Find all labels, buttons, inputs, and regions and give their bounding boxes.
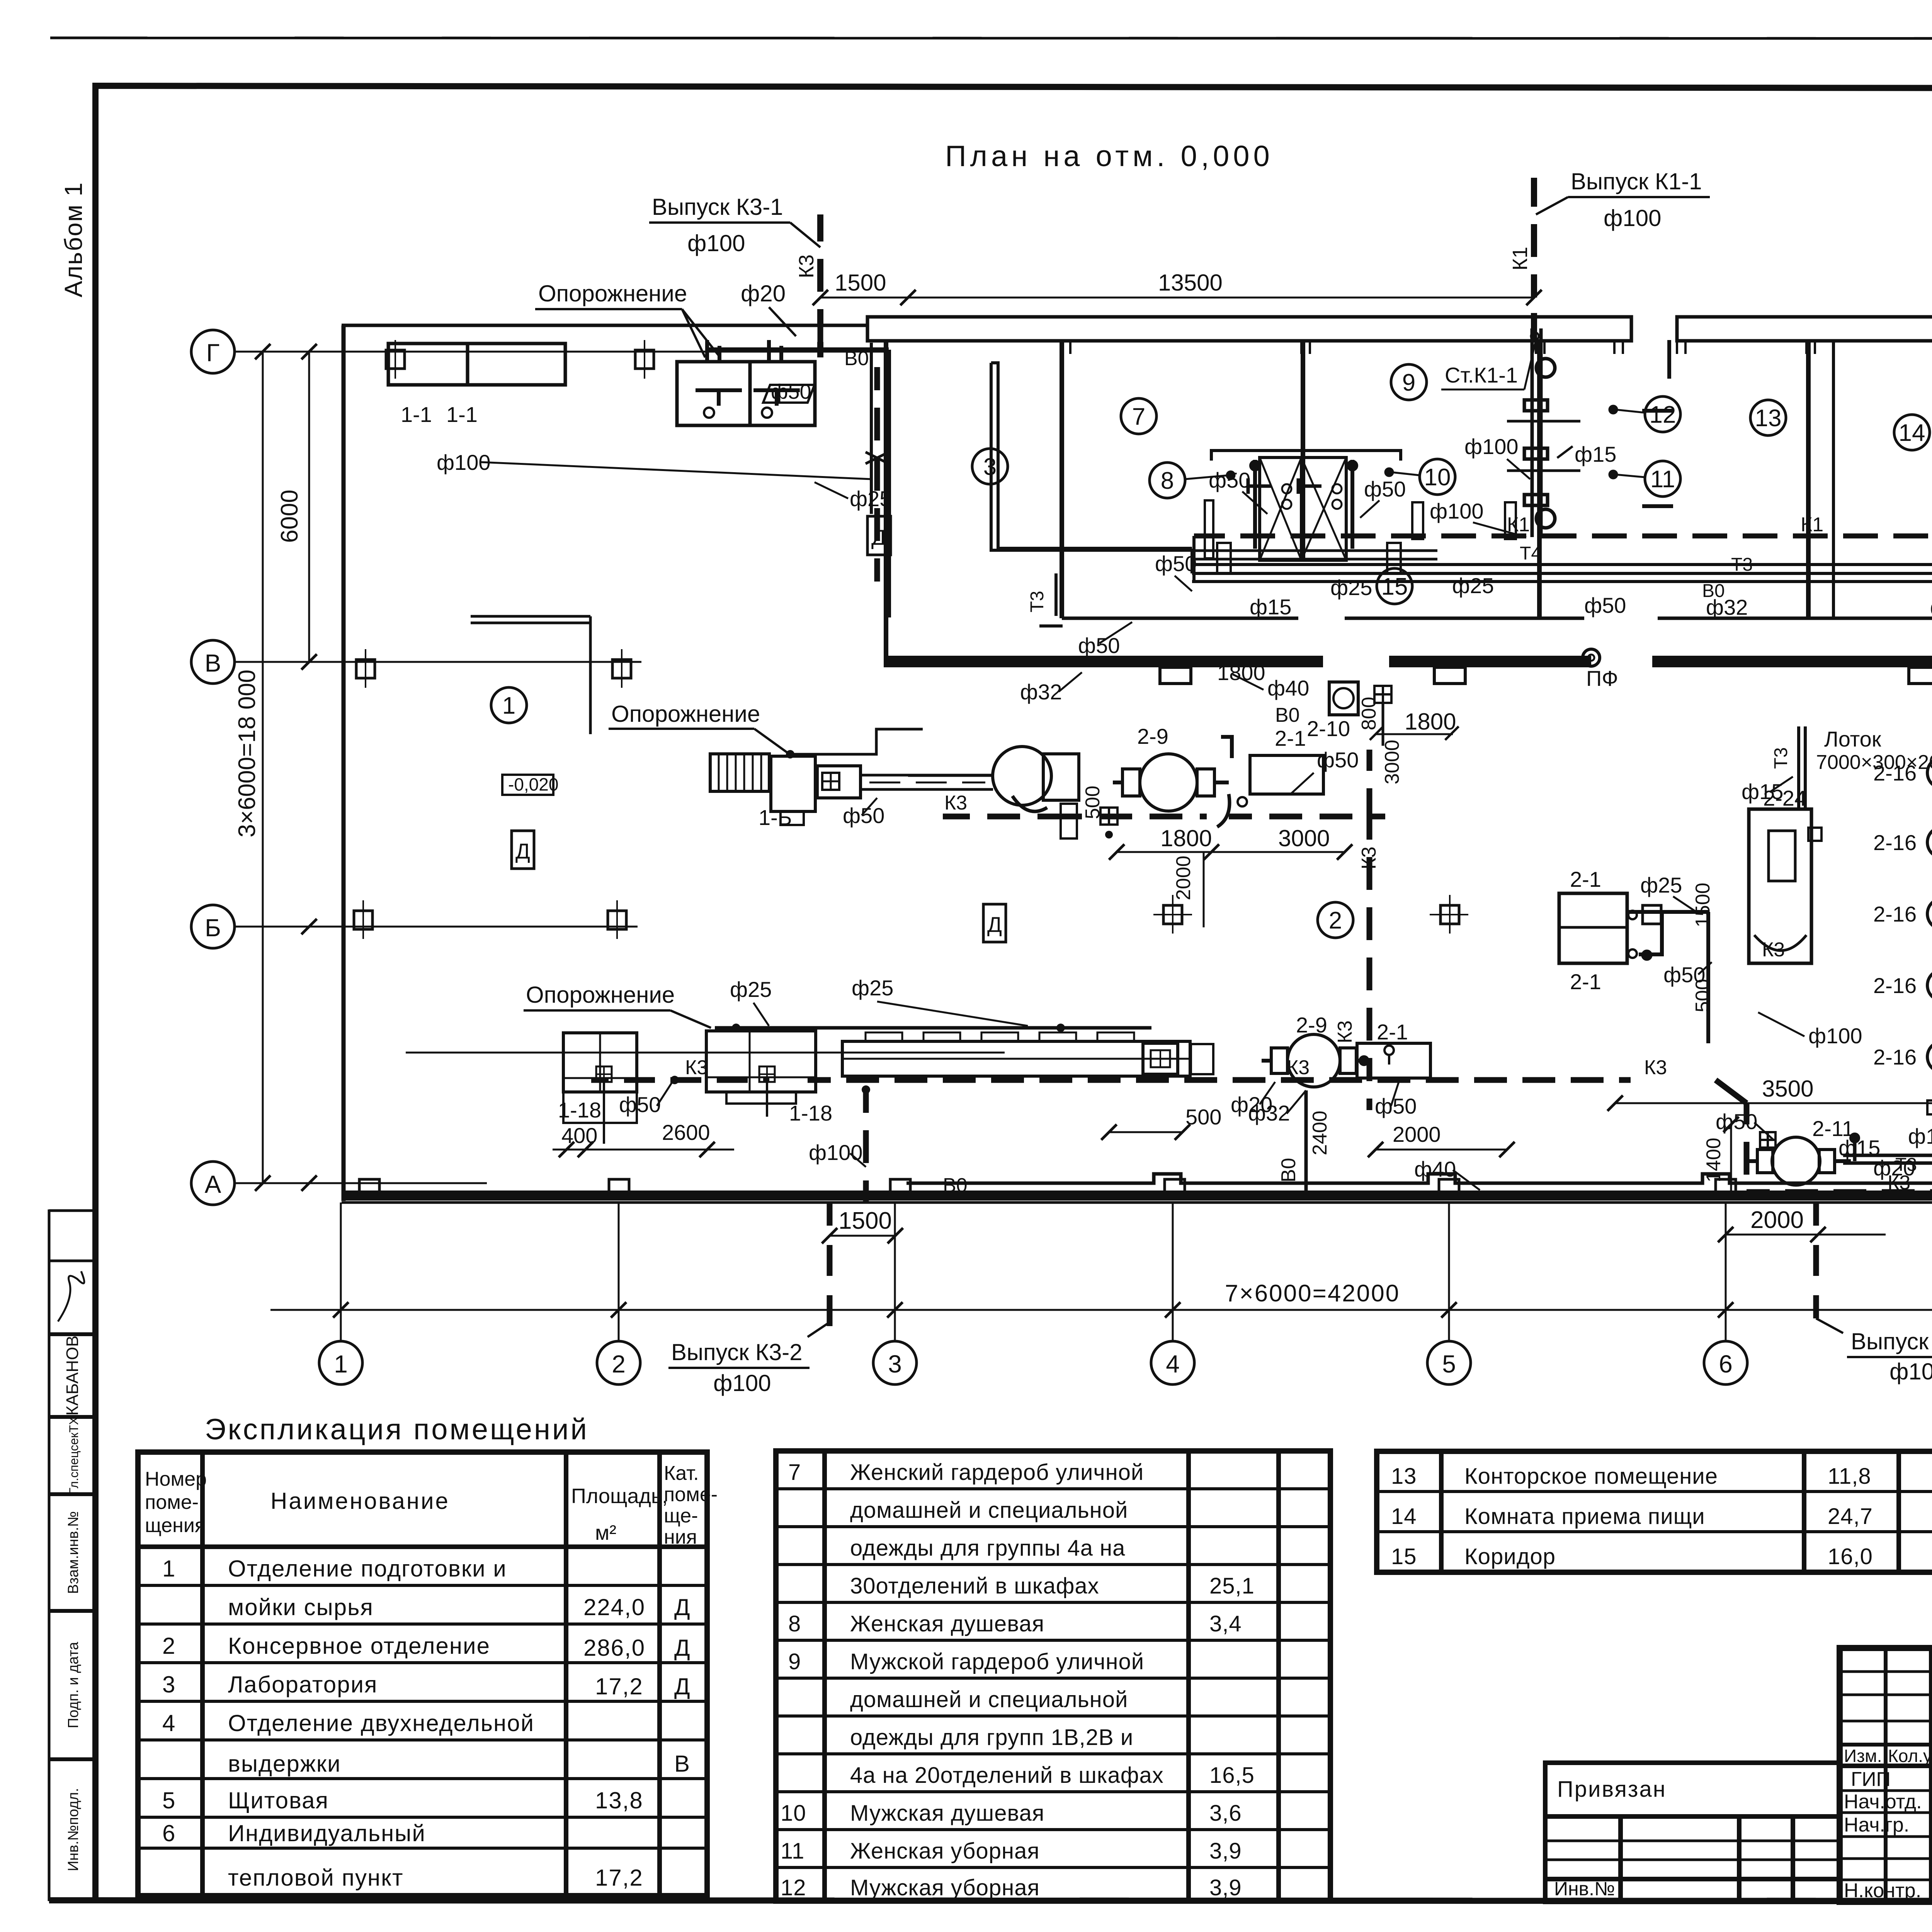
column B1: [354, 911, 372, 929]
room circle 3: [972, 449, 1008, 484]
svg-text:11: 11: [781, 1838, 804, 1864]
phi25 labels + pipe over belt: [715, 1026, 1151, 1030]
svg-text:Консервное отделение: Консервное отделение: [228, 1633, 490, 1659]
svg-text:щения: щения: [145, 1514, 206, 1537]
svg-text:6000: 6000: [276, 490, 303, 543]
wall niche at axis 5: [1434, 667, 1465, 684]
svg-text:ф100: ф100: [687, 230, 745, 256]
aux block (Привязан): [1545, 1763, 1840, 1902]
axis line Б: [235, 926, 638, 928]
svg-text:Д: Д: [987, 912, 1002, 937]
svg-text:13: 13: [1391, 1464, 1417, 1489]
shower stall X-box 1: [1260, 457, 1301, 560]
D flag hall2 left: [983, 904, 1006, 942]
svg-text:поме-: поме-: [664, 1483, 718, 1506]
svg-text:Номер: Номер: [145, 1468, 207, 1490]
V0 line corridor: [1192, 580, 1932, 583]
axis circle 1: [319, 1341, 362, 1384]
svg-text:ф15: ф15: [1575, 442, 1616, 466]
svg-text:1: 1: [334, 1350, 348, 1378]
svg-text:2-1: 2-1: [1377, 1020, 1408, 1044]
svg-text:7000×300×200: 7000×300×200: [1816, 751, 1932, 774]
svg-text:12: 12: [1650, 401, 1676, 428]
room circle 9: [1391, 364, 1427, 400]
column G2: [635, 350, 654, 369]
svg-text:ф40: ф40: [1267, 676, 1309, 700]
table 3 grid: [1377, 1451, 1932, 1572]
svg-text:1-Б: 1-Б: [759, 805, 792, 830]
svg-text:7: 7: [788, 1460, 801, 1485]
table 1 grid: [138, 1452, 707, 1896]
corridor top wall segments: [1062, 617, 1298, 620]
svg-text:Щитовая: Щитовая: [228, 1787, 329, 1813]
svg-text:ф100: ф100: [1808, 1024, 1862, 1048]
svg-text:Д: Д: [674, 1635, 691, 1661]
svg-text:1-18: 1-18: [789, 1101, 832, 1125]
svg-text:К3: К3: [944, 792, 967, 814]
wall room11|12 stub: [1667, 340, 1671, 379]
svg-text:3: 3: [888, 1350, 902, 1378]
T4 line corridor: [1194, 563, 1932, 566]
svg-text:14: 14: [1899, 420, 1925, 446]
svg-text:8: 8: [788, 1611, 801, 1636]
svg-text:12: 12: [781, 1875, 806, 1900]
svg-text:ф25: ф25: [730, 977, 772, 1002]
hall1 pipe run at V axis: [471, 616, 590, 734]
3500 dim: [1615, 1102, 1932, 1104]
svg-text:ф50: ф50: [1317, 748, 1359, 772]
svg-text:1400: 1400: [1702, 1138, 1725, 1182]
svg-text:Отделение подготовки и: Отделение подготовки и: [228, 1556, 507, 1582]
sink box A: [388, 344, 565, 385]
svg-text:ф50: ф50: [1155, 551, 1197, 576]
svg-text:2000: 2000: [1393, 1122, 1441, 1146]
vypusk K3-1 riser: [817, 214, 823, 357]
axis circle 4: [1151, 1341, 1194, 1384]
T3 pipe bottom right: [1843, 1117, 1932, 1163]
1-18 unit left: [563, 1033, 637, 1092]
room circle 14: [1894, 415, 1930, 450]
wall niche at axis 7: [1909, 667, 1932, 684]
svg-text:2-1: 2-1: [1275, 726, 1306, 750]
room circle 2: [1318, 902, 1353, 938]
svg-text:Отделение двухнедельной: Отделение двухнедельной: [228, 1710, 534, 1736]
svg-text:А: А: [205, 1170, 221, 1198]
svg-text:30отделений в шкафах: 30отделений в шкафах: [850, 1573, 1099, 1599]
hygiene unit 2-10: [1329, 682, 1358, 715]
left grid horizontals: [1840, 1670, 1932, 1673]
left grid verticals: [1884, 1648, 1888, 1902]
svg-text:16,0: 16,0: [1828, 1544, 1873, 1569]
taps in box B: [696, 390, 742, 406]
svg-text:выдержки: выдержки: [228, 1751, 341, 1777]
svg-text:Т4: Т4: [1520, 543, 1541, 564]
svg-text:ф25: ф25: [1330, 575, 1372, 600]
svg-text:ф100: ф100: [1604, 205, 1661, 231]
svg-text:Лаборатория: Лаборатория: [228, 1672, 378, 1697]
axis circle 5: [1427, 1341, 1471, 1384]
axis circle В: [191, 640, 235, 684]
svg-text:Выпуск К1-1: Выпуск К1-1: [1571, 168, 1702, 194]
svg-text:3,9: 3,9: [1209, 1875, 1242, 1900]
vypusk K3-3: [1813, 1202, 1819, 1318]
svg-text:3500: 3500: [1762, 1076, 1813, 1102]
svg-text:ф15: ф15: [1250, 595, 1291, 619]
svg-text:Нач.гр.: Нач.гр.: [1844, 1814, 1909, 1836]
svg-text:Экспликация помещений: Экспликация помещений: [205, 1413, 589, 1446]
svg-text:24,7: 24,7: [1828, 1504, 1873, 1529]
svg-text:В: В: [674, 1751, 690, 1777]
svg-text:ф100: ф100: [713, 1370, 771, 1396]
svg-text:ф32: ф32: [1706, 595, 1748, 619]
valve square on K3: [1100, 808, 1117, 825]
table 3 body: [1391, 1464, 1873, 1569]
svg-text:домашней и специальной: домашней и специальной: [850, 1498, 1128, 1523]
svg-text:ф50: ф50: [1375, 1094, 1417, 1118]
svg-text:2: 2: [162, 1633, 176, 1659]
svg-text:3,9: 3,9: [1209, 1838, 1242, 1864]
svg-text:Подп. и дата: Подп. и дата: [65, 1641, 82, 1728]
bottom wall: [342, 1190, 1932, 1201]
2-1 box train1: [1250, 755, 1323, 794]
dim 1500 top: [820, 297, 908, 299]
Д flag room3: [867, 516, 891, 555]
axis circle Г: [191, 330, 1932, 1384]
svg-text:5: 5: [1442, 1350, 1456, 1378]
svg-text:Д: Д: [674, 1594, 691, 1620]
axis tail 2: [618, 1202, 620, 1341]
tap on K3: [866, 452, 889, 464]
svg-text:2-10: 2-10: [1307, 716, 1350, 741]
svg-text:ф50: ф50: [771, 380, 811, 403]
svg-text:17,2: 17,2: [595, 1865, 643, 1891]
svg-text:1: 1: [502, 692, 515, 719]
room circle 15: [1377, 568, 1412, 604]
svg-text:В0: В0: [1277, 1158, 1300, 1182]
svg-text:Ст.К1-1: Ст.К1-1: [1445, 363, 1518, 387]
svg-text:7×6000=42000: 7×6000=42000: [1225, 1280, 1400, 1307]
axis tail 3: [894, 1202, 896, 1341]
svg-text:9: 9: [1402, 369, 1415, 396]
shower pipes verticals: [1253, 460, 1257, 549]
svg-text:4: 4: [1166, 1350, 1180, 1378]
svg-text:16,5: 16,5: [1209, 1763, 1255, 1788]
svg-text:ф50: ф50: [1364, 477, 1406, 501]
small gauge square: [822, 773, 839, 790]
svg-text:2400: 2400: [1309, 1111, 1331, 1155]
svg-text:2600: 2600: [662, 1120, 710, 1145]
thin top border: [50, 38, 1932, 39]
svg-text:2-9: 2-9: [1137, 724, 1168, 748]
small sink boxes room8: [1205, 500, 1213, 558]
T3 drop to 2-24: [1797, 726, 1800, 808]
T3 line corridor: [1192, 572, 1932, 575]
ladder feeder: [710, 754, 769, 791]
svg-text:В0: В0: [943, 1174, 968, 1197]
svg-text:мойки сырья: мойки сырья: [228, 1594, 374, 1620]
svg-text:ф32: ф32: [1020, 680, 1062, 704]
svg-text:2000: 2000: [1172, 855, 1195, 900]
svg-text:2-16: 2-16: [1873, 830, 1917, 855]
svg-text:В: В: [205, 649, 221, 677]
table 1 header: [145, 1462, 718, 1548]
svg-text:25,1: 25,1: [1209, 1573, 1255, 1599]
phi50 slanted tag: [763, 385, 815, 403]
svg-text:ф50: ф50: [619, 1092, 661, 1117]
wall room1|3: [884, 340, 888, 662]
svg-text:8: 8: [1161, 468, 1174, 494]
svg-text:1500: 1500: [838, 1207, 892, 1234]
svg-text:3×6000=18 000: 3×6000=18 000: [234, 670, 260, 837]
svg-text:1-18: 1-18: [558, 1098, 601, 1122]
column B5: [1440, 905, 1459, 924]
wall niche at axis 4: [1160, 667, 1191, 684]
leader room 8: [1185, 475, 1229, 479]
1-18 unit right: [706, 1031, 816, 1092]
column G1: [386, 350, 405, 369]
svg-text:Альбом 1: Альбом 1: [60, 182, 87, 298]
2-1 stacked boxes: [1559, 893, 1662, 963]
axis line В: [235, 661, 641, 663]
svg-text:ф15: ф15: [1838, 1136, 1880, 1160]
top wall outer line hall1: [342, 324, 867, 327]
svg-text:Индивидуальный: Индивидуальный: [228, 1820, 426, 1846]
svg-text:3000: 3000: [1278, 825, 1330, 851]
svg-text:ф100: ф100: [1889, 1359, 1932, 1384]
column V1: [356, 660, 375, 678]
room circle 10: [1420, 459, 1455, 495]
vypusk K3-2: [827, 1202, 833, 1326]
svg-text:Инв.№подл.: Инв.№подл.: [65, 1788, 82, 1871]
svg-text:ф50: ф50: [1209, 468, 1250, 492]
svg-text:10: 10: [781, 1801, 806, 1826]
title block header texts: [1844, 1746, 1932, 1766]
discharge boxes: [1043, 754, 1079, 800]
svg-text:14: 14: [1391, 1504, 1417, 1529]
svg-text:Выпуск К3-1: Выпуск К3-1: [652, 194, 783, 220]
main title block frame: [1840, 1648, 1932, 1902]
svg-text:Мужской гардероб уличной: Мужской гардероб уличной: [850, 1649, 1144, 1674]
svg-text:1-1: 1-1: [446, 402, 478, 427]
-0,020 level mark: [502, 775, 553, 795]
svg-text:Площадь,: Площадь,: [571, 1485, 668, 1508]
svg-text:ф32: ф32: [1930, 595, 1932, 619]
room circle 11: [1645, 461, 1680, 497]
svg-text:Т3: Т3: [1027, 591, 1048, 612]
belt tail: [1191, 1044, 1213, 1074]
svg-text:Привязан: Привязан: [1557, 1777, 1667, 1802]
T3 arm into hall1: [1039, 573, 1063, 626]
svg-text:15: 15: [1381, 573, 1408, 600]
sink box B: [677, 340, 815, 425]
svg-text:Взам.инв.№: Взам.инв.№: [65, 1511, 82, 1594]
column niche A2: [609, 1179, 629, 1196]
svg-text:ф40: ф40: [1414, 1157, 1456, 1181]
axis tail 5: [1448, 1202, 1450, 1341]
supply drops to box B: [705, 340, 709, 362]
svg-text:Конторское помещение: Конторское помещение: [1464, 1464, 1718, 1489]
svg-text:Женская уборная: Женская уборная: [850, 1838, 1040, 1864]
svg-text:11: 11: [1650, 466, 1675, 493]
axis line А: [235, 1182, 487, 1184]
svg-text:домашней и специальной: домашней и специальной: [850, 1687, 1128, 1712]
svg-text:ще-: ще-: [664, 1505, 698, 1527]
svg-text:Мужская душевая: Мужская душевая: [850, 1801, 1044, 1826]
thin left stamp border: [48, 1209, 51, 1901]
svg-text:13: 13: [1755, 405, 1782, 432]
svg-text:План на отм. 0,000: План на отм. 0,000: [945, 140, 1274, 173]
locker bar room 7/9: [1211, 451, 1401, 461]
svg-text:ф100: ф100: [1908, 1124, 1932, 1148]
svg-text:1800: 1800: [1217, 660, 1265, 685]
svg-text:К3: К3: [1762, 939, 1785, 961]
axis tail 6: [1725, 1202, 1727, 1341]
svg-text:К3: К3: [1287, 1056, 1310, 1079]
svg-text:2-1: 2-1: [1570, 867, 1601, 891]
svg-text:2-1: 2-1: [1570, 969, 1601, 994]
svg-text:Выпуск К3-3: Выпуск К3-3: [1851, 1328, 1932, 1354]
leader room 11: [1615, 474, 1645, 477]
svg-text:К3: К3: [685, 1056, 708, 1079]
K1 dashed line corridor: [1194, 534, 1932, 539]
svg-text:ф50: ф50: [1078, 633, 1120, 658]
svg-text:К1: К1: [1801, 514, 1823, 536]
column niche A1: [359, 1179, 379, 1196]
axis circle Б: [191, 905, 235, 948]
left stamp column: [49, 1211, 95, 1759]
svg-text:В0: В0: [844, 347, 869, 370]
svg-text:Наименование: Наименование: [270, 1488, 450, 1514]
svg-text:Д: Д: [515, 839, 530, 863]
svg-text:3: 3: [162, 1672, 176, 1697]
wall room9|12: [1537, 340, 1542, 618]
svg-text:ф15: ф15: [1742, 779, 1783, 804]
svg-text:К1: К1: [1509, 247, 1532, 271]
svg-text:15: 15: [1391, 1544, 1417, 1569]
svg-text:1: 1: [162, 1556, 176, 1582]
svg-text:1800: 1800: [1160, 825, 1212, 851]
svg-text:4: 4: [162, 1710, 176, 1736]
svg-text:В0: В0: [1275, 704, 1300, 726]
svg-text:К3: К3: [1644, 1056, 1667, 1079]
svg-text:Лоток: Лоток: [1824, 727, 1881, 751]
small valve square: [1374, 686, 1391, 703]
room circle 12: [1645, 396, 1680, 432]
K3 dash mid route: [1059, 750, 1385, 1110]
svg-text:Нач.отд.: Нач.отд.: [1844, 1791, 1922, 1813]
axis circle 3: [873, 1341, 917, 1384]
svg-text:Б: Б: [205, 914, 221, 942]
svg-text:500: 500: [1692, 979, 1714, 1012]
svg-text:ф25: ф25: [850, 486, 891, 511]
svg-text:Н.контр.: Н.контр.: [1844, 1879, 1921, 1902]
svg-text:КАБАНОВ: КАБАНОВ: [63, 1335, 82, 1416]
pipe riser group room 8: [991, 363, 1194, 582]
svg-text:2: 2: [612, 1350, 626, 1378]
svg-text:поме-: поме-: [145, 1491, 199, 1514]
V0 line along bottom wall: [906, 1174, 1932, 1183]
svg-text:2: 2: [1329, 907, 1342, 934]
K3 dashed drop inside: [820, 327, 877, 582]
dim 1500 at axis 3: [830, 1235, 895, 1237]
table 2 grid: [776, 1451, 1330, 1901]
svg-text:Коридор: Коридор: [1464, 1544, 1556, 1569]
svg-text:ПФ: ПФ: [1586, 666, 1618, 690]
svg-text:13,8: 13,8: [595, 1787, 643, 1813]
column B6: [1643, 905, 1661, 924]
svg-text:ф50: ф50: [1716, 1109, 1757, 1134]
K3 dash from washer: [943, 814, 1070, 820]
svg-text:ф100: ф100: [809, 1140, 863, 1165]
svg-text:2-16: 2-16: [1873, 973, 1917, 998]
svg-text:1500: 1500: [1692, 883, 1714, 927]
bottom main dim line: [270, 1309, 1932, 1311]
axis circle 6: [1704, 1341, 1747, 1384]
svg-text:ф100: ф100: [1430, 499, 1484, 523]
room circle 13: [1750, 400, 1786, 435]
2-16 circles: [1927, 757, 1932, 788]
svg-text:800: 800: [1358, 697, 1380, 730]
leader room 10: [1391, 472, 1420, 475]
svg-text:Д: Д: [674, 1673, 691, 1699]
svg-text:К3: К3: [1358, 847, 1380, 869]
svg-text:Опорожнение: Опорожнение: [611, 701, 760, 727]
svg-text:Опорожнение: Опорожнение: [526, 982, 675, 1008]
svg-text:ф25: ф25: [852, 976, 893, 1000]
svg-text:Д: Д: [871, 525, 886, 549]
conveyor shaft train2: [406, 1052, 1005, 1054]
svg-text:Женская душевая: Женская душевая: [850, 1611, 1044, 1636]
svg-text:К3: К3: [1334, 1020, 1356, 1043]
svg-text:5: 5: [162, 1787, 176, 1813]
column niche A5: [1439, 1179, 1459, 1196]
svg-text:2-16: 2-16: [1873, 1045, 1917, 1069]
leader room 12: [1615, 410, 1645, 413]
axis circle 2: [597, 1341, 640, 1384]
vertical dim chain x=800: [308, 352, 310, 662]
drum circle: [993, 747, 1051, 805]
svg-text:ф100: ф100: [1464, 434, 1519, 459]
PF symbol: [1583, 649, 1600, 666]
svg-text:1500: 1500: [835, 270, 886, 296]
svg-text:ф25: ф25: [1640, 873, 1682, 897]
svg-text:11,8: 11,8: [1828, 1464, 1871, 1489]
svg-text:Т3: Т3: [1771, 747, 1791, 769]
svg-text:-0,020: -0,020: [508, 774, 558, 794]
svg-text:9: 9: [788, 1649, 801, 1674]
axis tail 4: [1172, 1202, 1174, 1341]
window jamb ticks: [1062, 341, 1932, 354]
conveyor belt 2-26: [842, 1041, 1190, 1076]
top wall hollow band segments: [867, 317, 1631, 341]
svg-text:1-1: 1-1: [401, 402, 432, 427]
svg-text:Гл.спецсекТХ: Гл.спецсекТХ: [67, 1417, 81, 1495]
wall room3|7: [1060, 340, 1064, 618]
vertical dim chain x=680: [262, 352, 264, 1183]
shower stall X-box 2: [1301, 457, 1346, 560]
pump 2-9 circle: [1140, 754, 1197, 811]
pump 2-9 train2: [1262, 1034, 1370, 1087]
svg-text:2-9: 2-9: [1296, 1013, 1327, 1037]
V0 top run: [705, 343, 889, 617]
svg-text:Т3: Т3: [1731, 554, 1753, 575]
svg-text:6: 6: [162, 1820, 176, 1846]
svg-text:ф20: ф20: [741, 281, 786, 306]
svg-text:17,2: 17,2: [595, 1673, 643, 1699]
wall room13|14: [1832, 340, 1835, 618]
svg-text:ф50: ф50: [1584, 593, 1626, 617]
room circle 7: [1121, 398, 1156, 434]
